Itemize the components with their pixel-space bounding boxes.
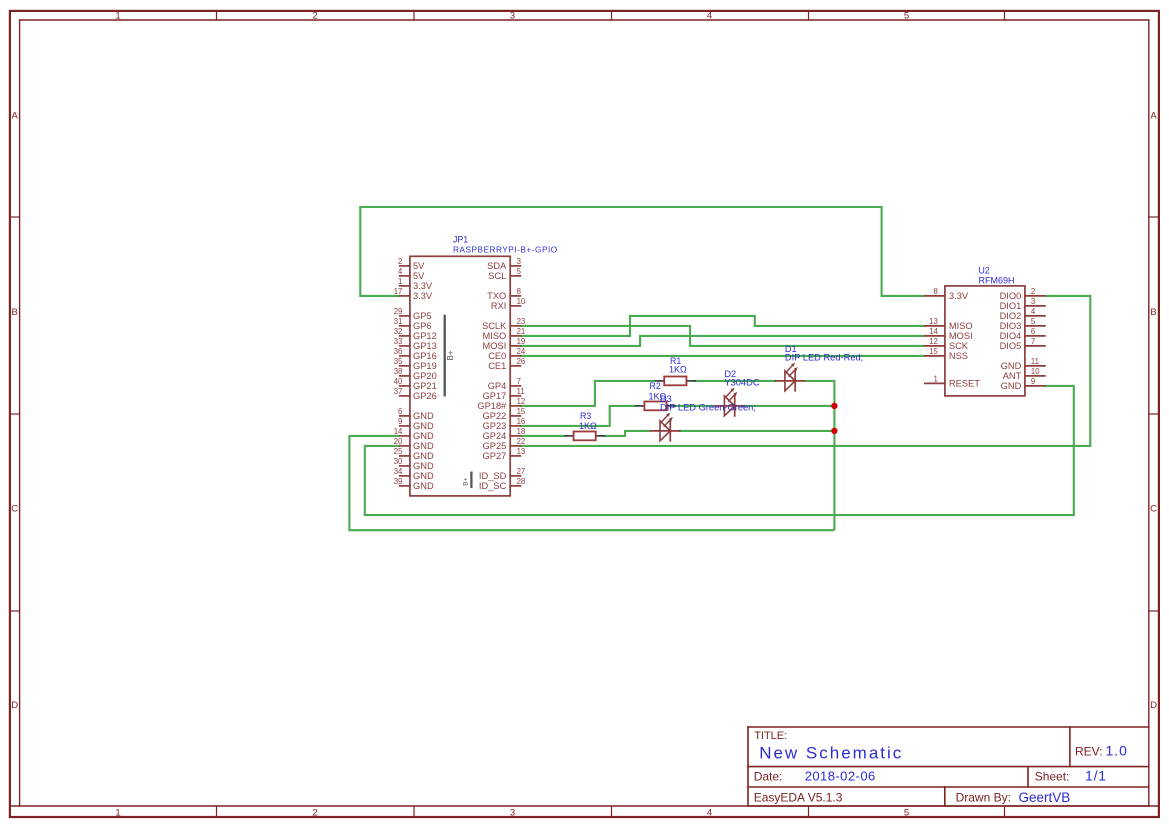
svg-text:GND: GND bbox=[413, 481, 434, 491]
svg-text:SCK: SCK bbox=[949, 341, 969, 351]
svg-text:GP13: GP13 bbox=[413, 341, 437, 351]
svg-text:5V: 5V bbox=[413, 261, 425, 271]
svg-text:GP21: GP21 bbox=[413, 381, 437, 391]
svg-text:Drawn By:: Drawn By: bbox=[956, 791, 1011, 805]
svg-text:14: 14 bbox=[394, 427, 403, 436]
svg-text:GP12: GP12 bbox=[413, 331, 437, 341]
svg-text:GP6: GP6 bbox=[413, 321, 432, 331]
svg-text:1/1: 1/1 bbox=[1085, 768, 1107, 784]
svg-text:1KΩ: 1KΩ bbox=[669, 364, 687, 374]
svg-text:SCLK: SCLK bbox=[482, 321, 507, 331]
svg-text:4: 4 bbox=[707, 11, 712, 22]
svg-text:New Schematic: New Schematic bbox=[759, 743, 903, 762]
svg-text:GP20: GP20 bbox=[413, 371, 437, 381]
svg-text:4: 4 bbox=[707, 807, 712, 818]
svg-text:CE1: CE1 bbox=[488, 361, 506, 371]
svg-text:C: C bbox=[11, 504, 18, 515]
svg-text:38: 38 bbox=[394, 367, 403, 376]
svg-text:8: 8 bbox=[517, 287, 521, 296]
svg-text:ANT: ANT bbox=[1003, 371, 1022, 381]
svg-text:10: 10 bbox=[517, 297, 526, 306]
svg-text:D: D bbox=[11, 700, 18, 711]
svg-text:1: 1 bbox=[115, 807, 120, 818]
svg-text:GP4: GP4 bbox=[488, 381, 507, 391]
svg-text:15: 15 bbox=[929, 347, 938, 356]
svg-text:B+: B+ bbox=[462, 477, 469, 485]
svg-text:11: 11 bbox=[517, 387, 525, 396]
svg-text:31: 31 bbox=[394, 317, 403, 326]
svg-text:GeertVB: GeertVB bbox=[1019, 790, 1071, 805]
svg-text:3: 3 bbox=[510, 807, 515, 818]
svg-text:26: 26 bbox=[517, 357, 526, 366]
svg-text:8: 8 bbox=[934, 287, 938, 296]
svg-text:GP18#: GP18# bbox=[477, 401, 507, 411]
svg-text:5: 5 bbox=[517, 267, 522, 276]
svg-text:GND: GND bbox=[413, 471, 434, 481]
svg-text:40: 40 bbox=[394, 377, 403, 386]
svg-text:MISO: MISO bbox=[949, 321, 973, 331]
svg-text:9: 9 bbox=[398, 417, 402, 426]
svg-text:25: 25 bbox=[394, 447, 403, 456]
svg-text:35: 35 bbox=[394, 357, 403, 366]
svg-text:RXI: RXI bbox=[491, 301, 507, 311]
svg-text:MISO: MISO bbox=[483, 331, 507, 341]
svg-text:U2: U2 bbox=[979, 266, 990, 276]
svg-text:JP1: JP1 bbox=[453, 234, 468, 244]
svg-text:3.3V: 3.3V bbox=[413, 291, 433, 301]
svg-text:7: 7 bbox=[517, 377, 521, 386]
svg-text:GP27: GP27 bbox=[483, 451, 507, 461]
svg-text:13: 13 bbox=[929, 317, 938, 326]
svg-text:3.3V: 3.3V bbox=[949, 291, 969, 301]
svg-text:11: 11 bbox=[1031, 357, 1039, 366]
svg-text:Sheet:: Sheet: bbox=[1035, 770, 1070, 784]
svg-text:TXO: TXO bbox=[487, 291, 506, 301]
svg-text:19: 19 bbox=[517, 337, 526, 346]
svg-text:R3: R3 bbox=[580, 411, 591, 421]
svg-text:SCL: SCL bbox=[488, 271, 506, 281]
svg-text:7: 7 bbox=[1031, 337, 1035, 346]
svg-text:SDA: SDA bbox=[487, 261, 507, 271]
svg-text:RFM69H: RFM69H bbox=[979, 275, 1015, 285]
svg-text:DIO0: DIO0 bbox=[1000, 291, 1022, 301]
svg-text:10: 10 bbox=[1031, 367, 1040, 376]
svg-text:RASPBERRYPI-B+-GPIO: RASPBERRYPI-B+-GPIO bbox=[453, 246, 558, 255]
svg-text:GP23: GP23 bbox=[483, 421, 507, 431]
svg-text:B: B bbox=[12, 307, 18, 318]
svg-text:B+: B+ bbox=[446, 350, 455, 360]
svg-text:EasyEDA V5.1.3: EasyEDA V5.1.3 bbox=[754, 791, 843, 805]
svg-text:2: 2 bbox=[1031, 287, 1035, 296]
svg-text:3.3V: 3.3V bbox=[413, 281, 433, 291]
svg-text:37: 37 bbox=[394, 387, 403, 396]
svg-text:REV:: REV: bbox=[1075, 744, 1103, 758]
svg-text:GP16: GP16 bbox=[413, 351, 437, 361]
svg-text:2: 2 bbox=[312, 807, 317, 818]
svg-text:4: 4 bbox=[1031, 307, 1036, 316]
svg-text:GND: GND bbox=[413, 451, 434, 461]
svg-text:24: 24 bbox=[517, 347, 526, 356]
svg-text:32: 32 bbox=[394, 327, 403, 336]
svg-text:DIP LED Red-Red;: DIP LED Red-Red; bbox=[785, 353, 863, 363]
svg-text:3: 3 bbox=[1031, 297, 1035, 306]
svg-text:3: 3 bbox=[517, 257, 521, 266]
svg-text:5: 5 bbox=[904, 11, 909, 22]
svg-text:22: 22 bbox=[517, 437, 526, 446]
svg-text:GP5: GP5 bbox=[413, 311, 432, 321]
svg-text:GND: GND bbox=[413, 461, 434, 471]
svg-text:R2: R2 bbox=[650, 381, 661, 391]
svg-text:B: B bbox=[1150, 307, 1156, 318]
svg-text:MOSI: MOSI bbox=[949, 331, 973, 341]
svg-text:2: 2 bbox=[398, 257, 402, 266]
svg-text:GP19: GP19 bbox=[413, 361, 437, 371]
svg-text:GND: GND bbox=[413, 431, 434, 441]
svg-text:5: 5 bbox=[1031, 317, 1036, 326]
svg-text:GP25: GP25 bbox=[483, 441, 507, 451]
svg-text:30: 30 bbox=[394, 457, 403, 466]
svg-text:33: 33 bbox=[394, 337, 403, 346]
svg-text:15: 15 bbox=[517, 407, 526, 416]
svg-text:Date:: Date: bbox=[754, 770, 783, 784]
svg-text:28: 28 bbox=[517, 477, 526, 486]
svg-text:GP24: GP24 bbox=[483, 431, 507, 441]
svg-text:GP26: GP26 bbox=[413, 391, 437, 401]
svg-text:ID_SC: ID_SC bbox=[479, 481, 507, 491]
svg-text:13: 13 bbox=[517, 447, 526, 456]
svg-text:1.0: 1.0 bbox=[1106, 743, 1128, 759]
svg-text:29: 29 bbox=[394, 307, 403, 316]
svg-text:DIO5: DIO5 bbox=[1000, 341, 1022, 351]
svg-text:TITLE:: TITLE: bbox=[754, 730, 787, 742]
svg-text:18: 18 bbox=[517, 427, 526, 436]
svg-text:A: A bbox=[1150, 111, 1157, 122]
svg-text:D: D bbox=[1150, 700, 1157, 711]
svg-text:39: 39 bbox=[394, 477, 403, 486]
svg-text:16: 16 bbox=[517, 417, 526, 426]
svg-text:9: 9 bbox=[1031, 377, 1035, 386]
svg-text:GND: GND bbox=[1001, 361, 1022, 371]
svg-text:6: 6 bbox=[1031, 327, 1035, 336]
svg-text:DIO3: DIO3 bbox=[1000, 321, 1022, 331]
svg-text:DIO4: DIO4 bbox=[1000, 331, 1022, 341]
svg-text:17: 17 bbox=[394, 287, 403, 296]
svg-text:GND: GND bbox=[1001, 381, 1022, 391]
svg-text:14: 14 bbox=[929, 327, 938, 336]
svg-text:GND: GND bbox=[413, 411, 434, 421]
svg-text:DIO1: DIO1 bbox=[1000, 301, 1022, 311]
svg-text:12: 12 bbox=[517, 397, 526, 406]
svg-text:1: 1 bbox=[398, 277, 402, 286]
svg-text:23: 23 bbox=[517, 317, 526, 326]
svg-text:5V: 5V bbox=[413, 271, 425, 281]
svg-text:GND: GND bbox=[413, 421, 434, 431]
svg-text:20: 20 bbox=[394, 437, 403, 446]
svg-text:RESET: RESET bbox=[949, 379, 980, 389]
svg-text:12: 12 bbox=[929, 337, 938, 346]
svg-text:DIP LED Green-Green;: DIP LED Green-Green; bbox=[660, 403, 756, 413]
svg-text:GND: GND bbox=[413, 441, 434, 451]
svg-text:ID_SD: ID_SD bbox=[479, 471, 507, 481]
svg-text:GP17: GP17 bbox=[483, 391, 507, 401]
svg-text:3: 3 bbox=[510, 11, 515, 22]
svg-text:GP22: GP22 bbox=[483, 411, 507, 421]
svg-text:36: 36 bbox=[394, 347, 403, 356]
svg-text:C: C bbox=[1150, 504, 1157, 515]
svg-text:A: A bbox=[12, 111, 19, 122]
svg-text:2018-02-06: 2018-02-06 bbox=[805, 769, 876, 784]
svg-text:21: 21 bbox=[517, 327, 526, 336]
svg-text:Y304DC: Y304DC bbox=[724, 378, 759, 388]
svg-text:34: 34 bbox=[394, 467, 403, 476]
svg-text:27: 27 bbox=[517, 467, 526, 476]
svg-text:2: 2 bbox=[312, 11, 317, 22]
svg-text:6: 6 bbox=[398, 407, 402, 416]
svg-text:MOSI: MOSI bbox=[483, 341, 507, 351]
svg-text:DIO2: DIO2 bbox=[1000, 311, 1022, 321]
svg-text:1: 1 bbox=[934, 374, 938, 383]
svg-text:1KΩ: 1KΩ bbox=[579, 421, 597, 431]
svg-text:5: 5 bbox=[904, 807, 909, 818]
svg-text:1: 1 bbox=[115, 11, 120, 22]
svg-text:NSS: NSS bbox=[949, 351, 968, 361]
svg-text:CE0: CE0 bbox=[488, 351, 506, 361]
svg-text:4: 4 bbox=[398, 267, 403, 276]
